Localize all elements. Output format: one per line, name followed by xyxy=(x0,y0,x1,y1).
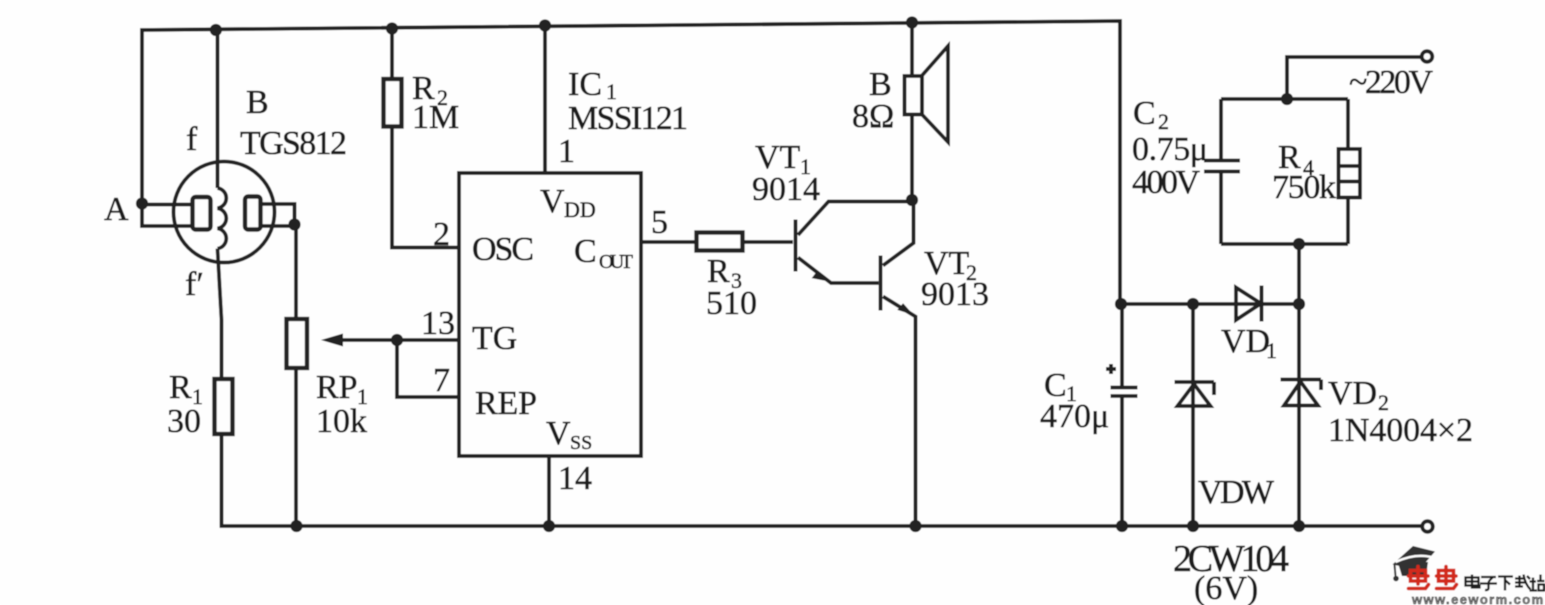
svg-text:1: 1 xyxy=(558,133,575,170)
svg-text:DD: DD xyxy=(564,197,596,222)
svg-text:IC: IC xyxy=(568,66,602,103)
svg-text:V: V xyxy=(546,415,571,452)
svg-text:MSSI121: MSSI121 xyxy=(568,100,688,137)
svg-text:8Ω: 8Ω xyxy=(852,98,894,135)
svg-text:R: R xyxy=(169,369,192,406)
svg-text:750k: 750k xyxy=(1272,169,1336,206)
svg-text:9013: 9013 xyxy=(921,276,989,313)
svg-text:B: B xyxy=(246,84,269,121)
svg-text:(6V): (6V) xyxy=(1194,570,1258,605)
svg-text:C: C xyxy=(574,233,597,270)
svg-text:TG: TG xyxy=(472,320,517,357)
svg-text:A: A xyxy=(104,191,129,228)
svg-text:VDW: VDW xyxy=(1198,474,1275,511)
svg-text:5: 5 xyxy=(651,204,668,241)
svg-text:TGS812: TGS812 xyxy=(240,125,347,162)
svg-text:VD: VD xyxy=(1221,323,1270,360)
svg-text:13: 13 xyxy=(421,305,455,342)
svg-text:14: 14 xyxy=(558,460,592,497)
svg-text:SS: SS xyxy=(570,432,592,454)
svg-text:~220V: ~220V xyxy=(1349,64,1433,101)
svg-text:0.75μ: 0.75μ xyxy=(1132,131,1208,168)
svg-text:1: 1 xyxy=(1266,338,1277,363)
svg-text:www.eeworm.com: www.eeworm.com xyxy=(1411,592,1545,605)
svg-text:510: 510 xyxy=(706,285,757,322)
svg-text:VD: VD xyxy=(1328,375,1377,412)
svg-text:30: 30 xyxy=(167,403,201,440)
svg-text:OSC: OSC xyxy=(472,231,534,268)
svg-text:7: 7 xyxy=(433,362,450,399)
svg-text:400V: 400V xyxy=(1132,164,1200,201)
svg-text:OUT: OUT xyxy=(599,251,633,273)
svg-text:9014: 9014 xyxy=(752,171,820,208)
svg-text:f: f xyxy=(186,121,198,158)
svg-text:RP: RP xyxy=(316,369,358,406)
svg-text:470μ: 470μ xyxy=(1040,398,1109,435)
svg-text:2: 2 xyxy=(433,216,450,253)
svg-text:1N4004×2: 1N4004×2 xyxy=(1328,412,1473,449)
svg-text:REP: REP xyxy=(475,385,537,422)
svg-text:V: V xyxy=(540,183,565,220)
svg-text:10k: 10k xyxy=(316,403,367,440)
svg-text:f′: f′ xyxy=(185,266,204,303)
svg-text:C: C xyxy=(1133,95,1156,132)
svg-text:1M: 1M xyxy=(412,99,459,136)
